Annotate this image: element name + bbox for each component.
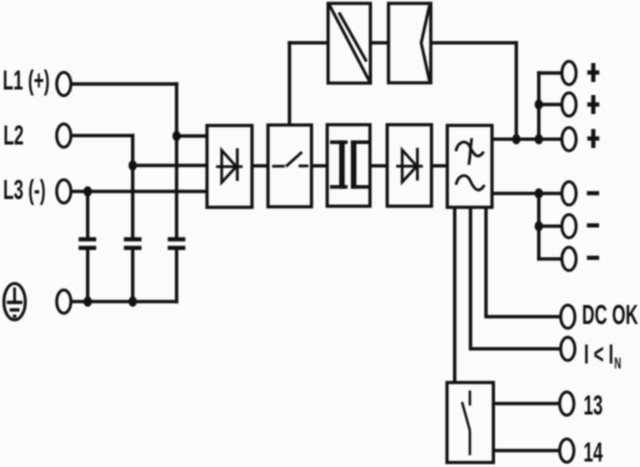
diode symbol D1 in rectifier block — [216, 148, 243, 182]
wire diode D2 to output block — [432, 164, 448, 167]
wire L1 riser down to capacitor C3 — [175, 84, 178, 238]
junction plus line 2 — [535, 134, 543, 144]
transformer symbol T1 — [330, 140, 369, 188]
booster box B — [389, 3, 431, 82]
sine symbol (bottom of output block) — [456, 176, 484, 190]
junction earth bus 1 — [84, 296, 92, 306]
switch symbol S1 — [272, 152, 308, 166]
minus mark 1 — [587, 191, 599, 195]
wire minus bus to terminal 3 — [539, 257, 562, 260]
wire relay to terminal 14 — [493, 449, 559, 452]
wire I less than IN drop — [471, 207, 561, 348]
wire C1 bottom to earth bus — [86, 250, 89, 302]
wire box A to box B — [370, 41, 388, 44]
wire switch block top riser — [288, 43, 291, 126]
wire box B to right corner — [431, 41, 517, 44]
svg-text:L1 (+): L1 (+) — [3, 64, 50, 95]
diode symbol D2 — [396, 148, 423, 182]
terminal L1 — [57, 72, 71, 95]
sine symbol with line (top of output block) — [456, 138, 484, 165]
junction L3 node — [84, 186, 92, 196]
wire rectifier to switch — [252, 164, 268, 167]
output filter block — [447, 125, 492, 207]
wire node L1 to rectifier input 1 — [177, 134, 207, 137]
terminal earth — [57, 290, 71, 313]
minus mark 3 — [587, 256, 599, 260]
terminal L3 — [57, 180, 71, 203]
terminal minus 2 — [562, 215, 576, 238]
rectifier block — [207, 126, 252, 208]
relay contact block — [447, 383, 493, 463]
wire output block to minus terminal 1 — [492, 192, 562, 195]
terminal DC OK — [561, 305, 575, 328]
junction L2 node — [129, 160, 137, 170]
capacitor C2 — [124, 237, 142, 250]
wire L1 horizontal — [72, 82, 177, 85]
terminal 13 — [560, 392, 574, 415]
terminal minus 3 — [562, 247, 576, 270]
wire C2 bottom to earth bus — [131, 250, 134, 302]
capacitor C3 — [168, 237, 186, 250]
wire L3 to rectifier input 3 — [72, 190, 208, 193]
converter box A — [328, 3, 370, 83]
svg-text:L3 (-): L3 (-) — [3, 174, 46, 205]
terminal 14 — [560, 439, 574, 462]
junction minus line — [535, 188, 543, 198]
terminal L2 — [57, 124, 71, 147]
wire C3 bottom to earth bus — [175, 250, 178, 302]
diode block D2 — [387, 125, 431, 207]
wire corner down to plus line — [515, 43, 518, 139]
wire node L2 to rectifier input 2 — [133, 164, 207, 167]
svg-text:I < I: I < I — [584, 338, 614, 369]
junction plus bus — [535, 99, 543, 109]
svg-text:14: 14 — [584, 436, 603, 467]
terminal plus 1 — [562, 61, 576, 84]
plus mark 3 — [587, 129, 599, 148]
terminal plus 2 — [562, 93, 576, 116]
protective earth symbol — [4, 284, 25, 320]
capacitor C1 — [79, 237, 97, 250]
terminal plus 3 — [562, 128, 576, 151]
junction minus bus — [535, 221, 543, 231]
wire drop to relay contact — [453, 207, 456, 382]
chevron symbol in box B — [421, 6, 429, 81]
junction L1 node — [172, 131, 180, 141]
wire L3 drop to capacitor C1 — [86, 191, 89, 238]
wire earth bus — [72, 300, 177, 303]
wire minus bus to terminal 2 — [539, 224, 562, 227]
relay switch symbol — [462, 391, 470, 456]
diagonal symbol in box A — [330, 5, 370, 81]
switch block — [268, 125, 312, 207]
wire L2 drop to node — [131, 136, 134, 239]
transformer block — [327, 125, 370, 207]
wire output block to plus terminal 3 — [492, 137, 562, 140]
minus mark 2 — [587, 223, 599, 227]
wire relay to terminal 13 — [493, 402, 559, 405]
svg-text:13: 13 — [584, 389, 603, 420]
svg-text:L2: L2 — [3, 119, 23, 150]
wire riser to converter box A — [290, 41, 329, 44]
wire plus bus to terminal 2 — [539, 103, 562, 106]
wire DC OK drop — [486, 207, 560, 316]
plus mark 2 — [587, 95, 599, 114]
wire plus bus to terminal 1 — [539, 71, 562, 74]
terminal minus 1 — [562, 182, 576, 205]
plus mark 1 — [587, 63, 599, 82]
wire L2 horizontal — [72, 134, 133, 137]
wire minus bus vertical — [537, 193, 540, 259]
wire transformer to diode D2 — [370, 164, 387, 167]
wire plus bus vertical — [537, 73, 540, 139]
junction earth bus 2 — [129, 296, 137, 306]
junction plus line 1 — [512, 134, 520, 144]
svg-text:DC OK: DC OK — [582, 299, 638, 330]
svg-text:N: N — [614, 354, 621, 372]
terminal I less than IN — [561, 337, 575, 360]
wire switch to transformer — [312, 164, 328, 167]
